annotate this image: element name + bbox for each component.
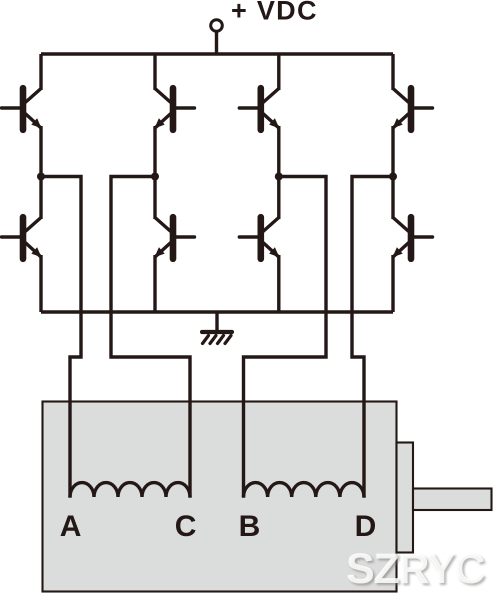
wire node 1 to motor terminal A bbox=[41, 177, 81, 498]
wire Q7 emitter to ground rail bbox=[277, 255, 280, 312]
winding A-C bbox=[70, 483, 190, 497]
wire Q1 collector to top rail bbox=[39, 54, 42, 90]
wire Q5 emitter to ground rail bbox=[39, 255, 42, 312]
winding B-D bbox=[244, 483, 365, 497]
wire ground rail to ground symbol bbox=[215, 312, 218, 331]
transistor Q8 bbox=[393, 217, 433, 259]
wire Q2 collector to top rail bbox=[153, 54, 156, 90]
wire Q8 emitter to ground rail bbox=[391, 255, 394, 312]
node 2 junction dot bbox=[151, 173, 159, 181]
wire Q6 emitter to ground rail bbox=[153, 255, 156, 312]
transistor Q2 bbox=[155, 88, 195, 130]
svg-text:D: D bbox=[355, 510, 377, 543]
wire node 2 to motor terminal C bbox=[111, 177, 190, 498]
wire Q3 collector to top rail bbox=[277, 54, 280, 90]
top rail (+VDC bus) bbox=[41, 52, 393, 55]
wire Q4 emitter to node 4 bbox=[391, 126, 394, 177]
wire node 4 to motor terminal D bbox=[352, 177, 393, 498]
ground rail bbox=[41, 310, 393, 313]
transistor Q6 bbox=[155, 217, 195, 259]
motor body bbox=[43, 402, 397, 592]
motor flange bbox=[397, 443, 414, 553]
wire Q5 collector to node 1 bbox=[39, 177, 42, 220]
wire Q2 emitter to node 2 bbox=[153, 126, 156, 177]
node 1 junction dot bbox=[37, 173, 45, 181]
wire Q7 collector to node 3 bbox=[277, 177, 280, 220]
svg-text:C: C bbox=[175, 510, 197, 543]
wire Q3 emitter to node 3 bbox=[277, 126, 280, 177]
wire VDC terminal to top rail bbox=[215, 33, 218, 55]
wire Q6 collector to node 2 bbox=[153, 177, 156, 220]
ground symbol bbox=[202, 332, 232, 344]
node 4 junction dot bbox=[389, 173, 397, 181]
svg-text:B: B bbox=[239, 510, 261, 543]
transistor Q3 bbox=[239, 88, 279, 130]
wire node 3 to motor terminal B bbox=[244, 177, 327, 498]
transistor Q5 bbox=[2, 217, 42, 259]
wire Q8 collector to node 4 bbox=[391, 177, 394, 220]
transistor Q1 bbox=[2, 88, 42, 130]
wire Q4 collector to top rail bbox=[391, 54, 394, 90]
wire Q1 emitter to node 1 bbox=[39, 126, 42, 177]
transistor Q4 bbox=[393, 88, 433, 130]
node 3 junction dot bbox=[275, 173, 283, 181]
watermark SZRYC bbox=[346, 545, 494, 594]
svg-text:A: A bbox=[60, 510, 82, 543]
+VDC terminal bbox=[211, 20, 223, 32]
svg-text:+ VDC: + VDC bbox=[231, 0, 318, 26]
transistor Q7 bbox=[239, 217, 279, 259]
motor shaft bbox=[413, 489, 492, 511]
